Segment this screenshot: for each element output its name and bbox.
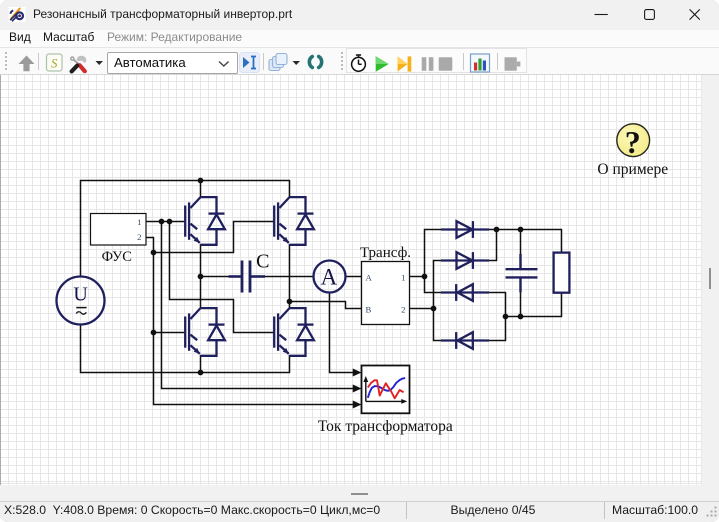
wire: ammeter to transformer pin A (346, 276, 362, 278)
transformer block box (362, 262, 410, 325)
up-arrow button (19, 56, 35, 72)
layers icon (269, 54, 287, 71)
scope axis arrowheads (363, 376, 368, 382)
wire: transformer pin 1 output (410, 276, 425, 278)
run-to icon (blue) (240, 53, 260, 73)
toolbar (0, 47, 719, 75)
wire: VD3 anode tie to negative rail (489, 293, 506, 317)
diode VD4 (rectifier row 4, pointing left) (441, 332, 489, 349)
title bar (0, 0, 719, 30)
pause button (422, 57, 427, 71)
stop button (439, 57, 453, 71)
chart icon (471, 54, 490, 72)
wire: output capacitor bottom lead (520, 293, 522, 317)
wire: right leg midpoint Q2 emitter to Q4 collector (289, 245, 291, 308)
svg-text:Трансф.: Трансф. (360, 245, 411, 261)
voltage source U1 circle (57, 277, 105, 325)
script icon (47, 54, 63, 71)
help button circle (617, 124, 650, 157)
output capacitor C2 plates (506, 254, 538, 292)
separator (38, 53, 40, 70)
node: left leg midpoint junction (198, 274, 204, 280)
status bar (0, 501, 719, 522)
ФУС control block box (91, 214, 147, 246)
wire: VD2 cathode tie to positive rail (489, 230, 497, 261)
diode VD1 (rectifier row 1, pointing right) (441, 221, 489, 238)
wire: right leg midpoint to transformer pin B (290, 302, 362, 309)
fast-forward button (398, 56, 408, 71)
svg-text:О примере: О примере (597, 161, 668, 178)
separator (497, 53, 499, 70)
app logo icon (8, 7, 26, 23)
wire: ФУС pin 2 down to junction (146, 238, 154, 253)
svg-text:A: A (321, 265, 338, 290)
scope input arrow 2 (353, 385, 362, 393)
node: gate bus junction to Q4 (167, 219, 173, 225)
svg-text:B: B (366, 304, 372, 314)
combobox (107, 52, 238, 74)
svg-text:?: ? (625, 124, 641, 160)
node: negative rail left junction (503, 314, 509, 320)
wire: output capacitor top lead (520, 230, 522, 256)
wire: Q3 emitter stub (200, 356, 202, 373)
wire: ammeter signal to scope input 1 (330, 293, 353, 373)
wire: positive DC bus from source U to Q2 collector (81, 181, 290, 277)
wire: pin 1 branch to Q4 gate (170, 222, 275, 333)
voltage source AC bar (76, 307, 86, 309)
scope block box (362, 366, 410, 414)
svg-text:2: 2 (401, 304, 405, 314)
scope blue trace (368, 378, 405, 398)
wire: midpoint to capacitor C (201, 276, 230, 278)
vertical scrollbar (702, 75, 719, 501)
node: gate bus junction to scope (159, 219, 165, 225)
wire: ФУС pin 1 to Q1 gate (146, 221, 185, 223)
ammeter PA1 circle (314, 261, 346, 293)
node: Q3 gate junction (151, 330, 157, 336)
wire: negative DC bus from source U to Q4 emitter (81, 325, 290, 373)
diode VD3 (rectifier row 3, pointing left) (441, 284, 489, 301)
svg-text:Ток трансформатора: Ток трансформатора (318, 418, 453, 435)
node: bottom bus / Q3 emitter junction (198, 370, 204, 376)
wire: rectifier negative output rail (506, 293, 562, 317)
play button (376, 56, 389, 72)
voltage source AC tilde (76, 312, 86, 314)
wire: scope input 2 from gate bus (162, 222, 353, 389)
stopwatch icon (352, 55, 366, 71)
close button (689, 9, 701, 21)
transistor Q4 (IGBT lower-right) (274, 308, 314, 356)
horizontal scrollbar (0, 485, 702, 501)
wire: rectifier positive output rail (489, 230, 562, 253)
dropdown arrow (96, 61, 104, 65)
board icon (505, 57, 521, 70)
node: VD2 tie junction (494, 227, 500, 233)
node: top bus / Q1 collector junction (198, 178, 204, 184)
wire: rectifier left rail 2 (diodes VD2,VD4) (434, 261, 442, 341)
node: right leg midpoint junction (287, 299, 293, 305)
wire: capacitor C to ammeter (263, 276, 314, 278)
wire: left leg midpoint Q1 emitter to Q3 collector (200, 245, 202, 308)
node: pin 2 rectifier junction (431, 306, 437, 312)
node: output capacitor top junction (518, 227, 524, 233)
resistor R1 (load) (554, 253, 570, 293)
scope vertical axis (366, 379, 405, 402)
wire: transformer pin 2 output (410, 308, 434, 310)
separator (263, 53, 265, 70)
svg-text:1: 1 (401, 272, 405, 282)
capacitor C plates (229, 261, 266, 293)
scope input arrow 3 (353, 401, 362, 409)
transistor Q3 (IGBT lower-left) (185, 308, 225, 356)
node: pin 2 branch junction (151, 250, 157, 256)
toolbar group 2 panel (346, 48, 527, 73)
node: pin 1 rectifier junction (422, 274, 428, 280)
wire: VD4 anode tie to negative rail (489, 317, 506, 341)
svg-text:ФУС: ФУС (102, 249, 132, 265)
dropdown arrow (293, 61, 301, 65)
sync (teal) icon (309, 57, 321, 68)
diode VD2 (rectifier row 2, pointing right) (441, 252, 489, 269)
canvas with grid (1, 75, 702, 485)
scope input arrow 1 (353, 369, 362, 377)
transistor Q2 (IGBT upper-right) (274, 197, 314, 245)
svg-text:C: C (256, 251, 269, 273)
minimize button (594, 9, 609, 21)
svg-text:U: U (73, 284, 88, 306)
transistor Q1 (IGBT upper-left) (185, 197, 225, 245)
separator (463, 53, 465, 70)
wire: scope input 3 from pin 2 bus (154, 333, 353, 405)
svg-text:1: 1 (137, 217, 141, 227)
wire: Q1 collector stub (200, 181, 202, 198)
wire: rectifier left rail 1 (diodes VD1,VD3) (425, 230, 442, 293)
svg-text:A: A (366, 272, 373, 282)
maximize button (644, 9, 656, 21)
tools (hammer and screwdriver) icon (71, 56, 87, 72)
wire: pin 2 branch down to Q3 gate junction (153, 253, 155, 333)
wire: junction to Q3 gate (154, 332, 186, 334)
toolbar grip 1 (5, 52, 7, 71)
menu bar (0, 30, 719, 47)
node: output capacitor bottom junction (518, 314, 524, 320)
wire: pin 2 branch to Q2 gate (154, 222, 275, 253)
svg-text:2: 2 (137, 232, 141, 242)
toolbar grip 2 (341, 52, 343, 71)
scope red trace (368, 380, 404, 398)
